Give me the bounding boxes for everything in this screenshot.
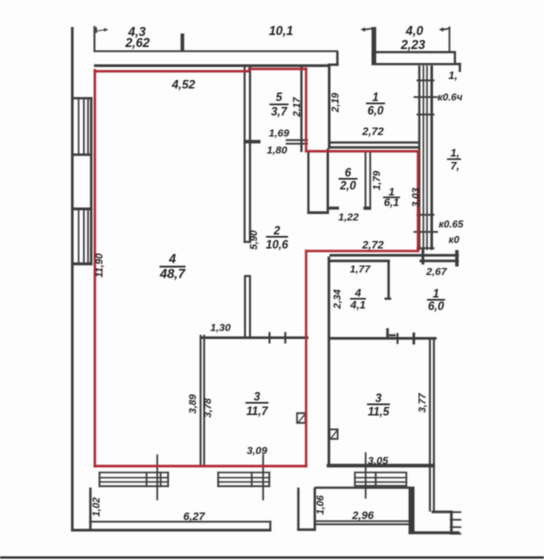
shaft ladder rungs — [417, 80, 435, 82]
dimension tick 4,3|10,1 — [181, 34, 185, 53]
svg-text:1,: 1, — [450, 148, 459, 160]
svg-text:1: 1 — [372, 92, 378, 104]
wall room4|5 partition upper left line — [244, 67, 246, 243]
svg-text:2,23: 2,23 — [400, 38, 425, 52]
svg-text:6,1: 6,1 — [384, 197, 399, 209]
wall jog horizontal — [328, 64, 339, 66]
radiator box left2 — [217, 472, 270, 474]
dimension arrow right of 2,23 — [439, 27, 451, 31]
wall room11.5 bottom — [327, 464, 435, 468]
window Wleft2 top cap — [71, 208, 92, 211]
balcony right front lines — [316, 520, 410, 522]
red left vertical — [94, 69, 97, 467]
wall hall partial — [387, 262, 389, 300]
window Wleft2 bottom cap — [71, 262, 92, 265]
radiator box left1 — [99, 472, 169, 474]
wall left outer — [71, 27, 74, 532]
svg-text:6,0: 6,0 — [428, 301, 445, 313]
svg-text:11,5: 11,5 — [368, 406, 390, 418]
wall room6.0 left — [328, 64, 331, 149]
wall right outer stub — [459, 63, 461, 72]
svg-text:3: 3 — [375, 393, 382, 405]
dimension arrow left of 2,23 — [361, 27, 373, 31]
svg-text:7,: 7, — [450, 161, 459, 173]
wall room4|5 partition upper right line — [249, 67, 251, 243]
red wing bottom horizontal — [305, 250, 419, 252]
wall room5 foot stub — [244, 140, 261, 144]
svg-text:2,67: 2,67 — [425, 266, 448, 278]
dim tick left1 — [156, 454, 158, 500]
svg-text:4: 4 — [168, 252, 176, 266]
svg-text:к0.65: к0.65 — [439, 220, 464, 231]
wall room11.7 top — [201, 336, 309, 339]
label room6.1 bar — [383, 197, 400, 199]
wall step right-bottom — [432, 511, 453, 514]
svg-text:2,0: 2,0 — [339, 181, 357, 193]
svg-text:3,7: 3,7 — [271, 106, 288, 118]
wall top (left section) — [94, 64, 331, 67]
svg-text:1,06: 1,06 — [316, 495, 327, 515]
balcony left right-end — [269, 521, 271, 532]
svg-text:к0.6ч: к0.6ч — [438, 93, 463, 104]
svg-text:1,79: 1,79 — [372, 170, 383, 190]
dim tick 3,05 — [365, 452, 367, 498]
hatch square A — [296, 412, 306, 423]
column shaft right edge — [327, 149, 329, 215]
svg-text:к0: к0 — [449, 235, 460, 246]
label neighbor bar — [447, 158, 461, 160]
wall room11.5 top — [330, 337, 437, 340]
photo border bottom — [0, 556, 544, 558]
wall room5 right — [300, 66, 302, 152]
label room11.7 bar — [246, 402, 269, 404]
protrusion between balconies — [297, 488, 299, 531]
svg-text:1,02: 1,02 — [92, 497, 103, 517]
svg-text:2,72: 2,72 — [361, 240, 383, 252]
balcony left edge — [89, 488, 91, 532]
wall room5 bottom right piece — [286, 139, 308, 141]
dimension extension top-right — [449, 27, 451, 53]
svg-text:2,19: 2,19 — [330, 92, 341, 113]
window Wleft1 top cap — [71, 97, 92, 99]
label hall4.1 bar — [350, 298, 366, 300]
svg-text:3,89: 3,89 — [188, 394, 199, 414]
svg-text:10,1: 10,1 — [269, 24, 293, 38]
svg-text:1,30: 1,30 — [210, 322, 231, 334]
svg-text:11,7: 11,7 — [246, 406, 268, 418]
balcony left front lines — [89, 521, 271, 523]
shaft ladder vertical lines — [418, 66, 420, 251]
balcony threshold right — [315, 487, 410, 489]
wall band left thick edge — [372, 27, 377, 65]
wall bottom-left corner — [71, 529, 92, 532]
wall band top-right outline — [372, 51, 456, 65]
svg-text:3,03: 3,03 — [411, 187, 422, 207]
wall top-right wing lower line b — [420, 260, 459, 263]
svg-text:3,05: 3,05 — [368, 455, 389, 467]
wall left inner face — [90, 97, 92, 265]
wall room11.7 left double — [200, 335, 202, 467]
svg-text:10,6: 10,6 — [266, 240, 289, 252]
label room1-6.0top bar — [366, 103, 385, 105]
svg-text:3,78: 3,78 — [203, 398, 214, 418]
dimension arrow top-left — [96, 27, 98, 33]
red mid vertical lower — [305, 250, 307, 468]
wall door stub room6 — [329, 207, 339, 210]
svg-text:3,77: 3,77 — [418, 393, 429, 413]
svg-text:5,90: 5,90 — [249, 230, 260, 250]
dim tick left2 — [262, 454, 264, 500]
svg-text:1: 1 — [433, 289, 439, 301]
svg-text:6: 6 — [345, 168, 352, 180]
column shaft left edge — [307, 153, 309, 215]
svg-text:3: 3 — [254, 392, 261, 404]
svg-text:2,72: 2,72 — [361, 126, 383, 138]
label room2 bar — [266, 236, 288, 238]
wall room6 right cap — [364, 207, 372, 210]
wall room4|5 partition lower segment — [244, 275, 246, 339]
wall band bottom extension right — [456, 63, 461, 65]
window Wleft1 mullions — [78, 97, 80, 155]
wall end tick right — [455, 250, 458, 267]
wall room6.0 bottom lower line — [328, 146, 420, 148]
wall room4|5 partition cap — [244, 241, 252, 243]
junction tick — [422, 249, 425, 265]
door pin room11.5 — [386, 328, 389, 337]
red top horizontal b — [248, 68, 307, 71]
wall right-bottom vertical — [450, 511, 453, 534]
window Wleft1 bottom cap — [71, 154, 92, 156]
label room4 bar — [160, 266, 186, 268]
red wing right vertical — [417, 150, 419, 252]
red bottom horizontal — [94, 465, 308, 468]
svg-text:2: 2 — [273, 226, 281, 238]
wall room6 right thin — [365, 151, 367, 210]
RED OUTLINE — [94, 68, 420, 468]
svg-text:5: 5 — [276, 92, 283, 104]
dimension line top-left — [94, 50, 339, 52]
wall top-right wing lower line a — [330, 260, 391, 263]
svg-text:1,: 1, — [448, 70, 457, 82]
label room6 bar — [339, 178, 358, 180]
svg-text:1,22: 1,22 — [338, 212, 359, 224]
dimension extension top-left — [94, 26, 96, 52]
wall bottom-right base line — [409, 531, 460, 534]
wall hall partial cap — [385, 298, 392, 300]
wall top-right wing upper line — [330, 254, 459, 257]
wall room11.5 right double — [429, 338, 431, 512]
column shaft bottom cap — [307, 211, 329, 214]
svg-text:4,1: 4,1 — [349, 300, 365, 312]
svg-text:2,96: 2,96 — [351, 510, 374, 522]
svg-text:2,17: 2,17 — [292, 97, 303, 118]
red wing top horizontal — [305, 150, 419, 153]
wall room6.0 bottom upper line — [328, 141, 420, 143]
wall ticks on y336 — [269, 332, 271, 344]
red top horizontal a — [94, 70, 250, 73]
svg-text:4,52: 4,52 — [171, 77, 196, 91]
svg-text:6,27: 6,27 — [183, 511, 205, 523]
pillar right balcony corner — [409, 487, 415, 532]
label room11.5 bar — [367, 404, 390, 406]
svg-text:6,0: 6,0 — [368, 106, 385, 118]
svg-text:1,80: 1,80 — [267, 145, 288, 157]
ladder rungs bottom-right — [450, 511, 462, 513]
svg-text:1,69: 1,69 — [269, 127, 290, 139]
red vertical room5 right — [305, 68, 307, 153]
svg-text:2,62: 2,62 — [124, 36, 149, 50]
svg-text:11,90: 11,90 — [95, 253, 106, 278]
radiator box right — [354, 472, 407, 487]
wall left of right-wing rooms — [328, 257, 331, 467]
svg-text:4,0: 4,0 — [405, 24, 423, 38]
svg-text:2,34: 2,34 — [333, 289, 344, 310]
svg-text:4: 4 — [354, 288, 361, 300]
label room1-6.0 bar — [427, 299, 445, 301]
hatch square B — [329, 429, 339, 440]
label room5 bar — [270, 104, 289, 106]
wall jog vertical upper — [336, 52, 338, 66]
svg-text:48,7: 48,7 — [159, 266, 186, 281]
svg-text:3,09: 3,09 — [247, 445, 268, 457]
window Wleft2 mullions — [78, 208, 80, 265]
svg-text:1,77: 1,77 — [350, 264, 372, 276]
